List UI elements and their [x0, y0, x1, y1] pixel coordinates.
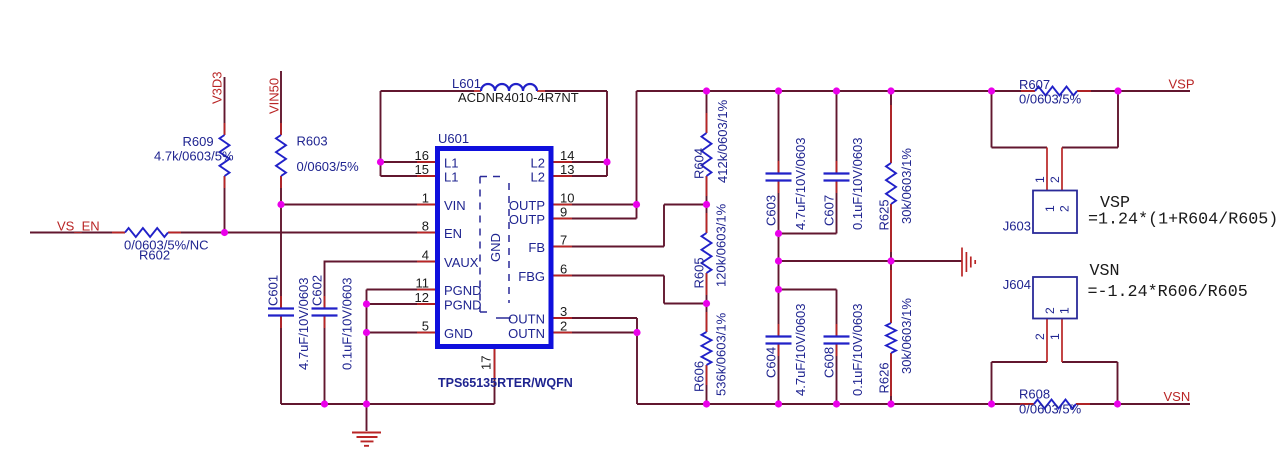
wire R604 R605 R606 column: [706, 91, 708, 404]
pin name VAUX left: [444, 255, 479, 270]
pin number 14: [560, 148, 574, 163]
J604 pin number 1 outside: [1048, 333, 1062, 340]
pin stubs J603: [1047, 148, 1062, 191]
svg-text:VIN: VIN: [444, 198, 466, 213]
junction VIN50 / VIN / C601: [277, 201, 284, 208]
value label R605: [714, 203, 729, 287]
resistor R608: [1034, 400, 1076, 409]
svg-text:R602: R602: [139, 248, 170, 263]
lead L601: [474, 90, 545, 92]
lead C604: [778, 324, 780, 356]
svg-text:VS_EN: VS_EN: [57, 219, 100, 234]
pin name OUTN right: [508, 326, 545, 341]
svg-text:4.7uF/10V/0603: 4.7uF/10V/0603: [793, 137, 808, 230]
resistor R625: [886, 163, 896, 204]
svg-text:L601: L601: [452, 76, 481, 91]
lead C602: [324, 296, 326, 328]
svg-text:R609: R609: [183, 134, 214, 149]
junction C607 top / VSP rail: [833, 87, 840, 94]
svg-text:1: 1: [422, 191, 429, 206]
op-amp U601 body (TPS65135): [438, 149, 552, 347]
capacitor C602: [312, 309, 338, 316]
svg-text:C608: C608: [822, 347, 837, 378]
formula VSN: [1088, 283, 1248, 302]
svg-text:120k/0603/1%: 120k/0603/1%: [714, 203, 729, 287]
value label L601: [458, 90, 579, 105]
power net V3D3: [210, 71, 225, 104]
svg-text:R605: R605: [692, 257, 707, 288]
lead R604: [706, 113, 708, 196]
svg-text:17: 17: [479, 356, 494, 370]
junction R606 / VSN rail: [703, 400, 710, 407]
junction R625 / R626 / GND: [887, 257, 894, 264]
svg-text:0/0603/5%: 0/0603/5%: [1019, 92, 1082, 107]
pin number 16: [415, 148, 429, 163]
svg-text:4.7k/0603/5%: 4.7k/0603/5%: [154, 149, 234, 164]
value label C607: [850, 137, 865, 230]
lead R626: [890, 270, 892, 396]
wire top rail left with L601: [381, 91, 608, 176]
capacitor C604: [766, 337, 792, 344]
pin number 12: [415, 290, 429, 305]
wire GND rail bottom-left: [281, 349, 495, 404]
net label VSN: [1164, 389, 1191, 404]
pin name L2 right: [531, 156, 545, 171]
value label R609: [154, 149, 234, 164]
lead C603: [778, 161, 780, 193]
lead R606: [706, 312, 708, 385]
svg-text:OUTN: OUTN: [508, 312, 545, 327]
pin 17 stub: [494, 349, 496, 378]
ref label C603: [764, 195, 779, 226]
value label R606: [714, 312, 729, 396]
pin number 6: [560, 262, 567, 277]
svg-text:FBG: FBG: [518, 269, 545, 284]
svg-text:L1: L1: [444, 170, 458, 185]
junction VS_EN / R609 / EN: [221, 229, 228, 236]
junction pin16 node: [377, 158, 384, 165]
svg-text:U601: U601: [438, 131, 469, 146]
resistor R604: [702, 133, 712, 176]
formula title VSP: [1100, 194, 1130, 213]
power net VIN50: [267, 78, 282, 114]
value label R626: [899, 298, 914, 374]
svg-text:9: 9: [560, 205, 567, 220]
wire pin16 pin15 to rail: [381, 162, 437, 176]
junction R626 / VSN rail: [887, 400, 894, 407]
lead R607: [1021, 90, 1091, 92]
junction C602 / GND rail: [321, 400, 328, 407]
pin number 7: [560, 233, 567, 248]
svg-text:2: 2: [1033, 333, 1047, 340]
wire VSN rail: [637, 403, 1190, 405]
svg-text:0.1uF/10V/0603: 0.1uF/10V/0603: [340, 277, 355, 370]
svg-text:536k/0603/1%: 536k/0603/1%: [714, 312, 729, 396]
resistor R602: [125, 228, 168, 237]
svg-text:2: 2: [1048, 176, 1062, 183]
resistor R603: [276, 135, 286, 176]
pin name VIN left: [444, 198, 466, 213]
ref label R603: [297, 134, 328, 149]
lead R605: [706, 213, 708, 295]
inductor L601: [481, 84, 537, 91]
pin name EN left: [444, 226, 462, 241]
svg-text:GND: GND: [488, 233, 503, 262]
formula title VSN: [1090, 262, 1120, 281]
wire R625 R626 column: [890, 91, 892, 404]
junction FBG / R605 / R606: [703, 300, 710, 307]
pin name OUTP right: [509, 198, 545, 213]
wire J604 risers: [992, 362, 1118, 404]
svg-text:L2: L2: [531, 170, 545, 185]
ref label R609: [183, 134, 214, 149]
pin number 3: [560, 304, 567, 319]
svg-text:L1: L1: [444, 156, 458, 171]
lead C607: [836, 161, 838, 193]
wire VS_EN net (EN input): [30, 232, 436, 234]
lead R603: [280, 123, 282, 188]
svg-text:PGND: PGND: [444, 298, 482, 313]
J604 pin 2 inside: [1043, 307, 1057, 314]
pin name OUTP right: [509, 212, 545, 227]
svg-text:4.7uF/10V/0603: 4.7uF/10V/0603: [793, 303, 808, 396]
ref label U601: [438, 131, 469, 146]
junction C603 top / VSP rail: [775, 87, 782, 94]
svg-text:1: 1: [1033, 176, 1047, 183]
svg-text:0.1uF/10V/0603: 0.1uF/10V/0603: [850, 137, 865, 230]
lead R602: [112, 232, 181, 234]
pin name L1 left: [444, 156, 458, 171]
svg-text:J604: J604: [1003, 277, 1031, 292]
pin name PGND left: [444, 298, 482, 313]
svg-text:GND: GND: [444, 326, 473, 341]
svg-text:30k/0603/1%: 30k/0603/1%: [899, 148, 914, 224]
svg-text:R607: R607: [1019, 77, 1050, 92]
wire VIN pin 1: [281, 204, 436, 206]
wire OUTN riser to VSN rail: [636, 333, 638, 405]
resistor R609: [220, 135, 230, 176]
junction J604 pin2 / VSN rail: [988, 400, 995, 407]
svg-text:0/0603/5%: 0/0603/5%: [297, 159, 360, 174]
lead R609: [224, 123, 226, 188]
resistor R605: [702, 233, 712, 273]
svg-text:2: 2: [560, 319, 567, 334]
connector J603: [1033, 191, 1077, 234]
pin name FBG right: [518, 269, 545, 284]
pin name FB right: [528, 240, 545, 255]
svg-text:4: 4: [422, 248, 429, 263]
junction J603 pin2 / VSP rail: [1114, 87, 1121, 94]
junction J604 pin1 / VSN rail: [1114, 400, 1121, 407]
junction J603 pin1 / VSP rail: [988, 87, 995, 94]
svg-text:3: 3: [560, 304, 567, 319]
value label R625: [899, 148, 914, 224]
resistor R607: [1035, 87, 1077, 96]
junction GND rail / ground: [363, 400, 370, 407]
svg-text:0.1uF/10V/0603: 0.1uF/10V/0603: [850, 303, 865, 396]
wire PGND pins to GND riser: [367, 290, 437, 405]
value label R603: [297, 159, 360, 174]
svg-text:412k/0603/1%: 412k/0603/1%: [715, 99, 730, 183]
J603 pin number 1 outside: [1033, 176, 1047, 183]
svg-text:30k/0603/1%: 30k/0603/1%: [899, 298, 914, 374]
pin name GND (center pad): [488, 233, 503, 262]
svg-text:FB: FB: [528, 240, 545, 255]
svg-text:14: 14: [560, 148, 574, 163]
svg-text:VAUX: VAUX: [444, 255, 479, 270]
svg-text:R608: R608: [1019, 387, 1050, 402]
svg-text:=-1.24*R606/R605: =-1.24*R606/R605: [1088, 283, 1248, 302]
value label R607: [1019, 92, 1082, 107]
junction OUTN node: [633, 329, 640, 336]
lead R608: [1020, 403, 1090, 405]
capacitor C603: [766, 174, 792, 181]
svg-text:R606: R606: [692, 361, 707, 392]
svg-text:ACDNR4010-4R7NT: ACDNR4010-4R7NT: [458, 90, 579, 105]
junction C603 col / GND rail: [775, 257, 782, 264]
pin number 13: [560, 162, 574, 177]
value label C608: [850, 303, 865, 396]
svg-text:R603: R603: [297, 134, 328, 149]
pin stubs U601 right side: [553, 162, 573, 333]
svg-text:V3D3: V3D3: [210, 71, 225, 104]
lead R625: [890, 105, 892, 252]
value label C601: [296, 277, 311, 370]
pin name L2 right: [531, 170, 545, 185]
J603 pin 1 inside: [1043, 205, 1057, 212]
svg-text:C601: C601: [266, 275, 281, 306]
pin name GND left: [444, 326, 473, 341]
svg-text:2: 2: [1058, 205, 1072, 212]
pin name L1 left: [444, 170, 458, 185]
junction OUTP node: [633, 201, 640, 208]
lead C601: [280, 296, 282, 328]
value label C602: [340, 277, 355, 370]
junction FB / R604 / R605: [703, 201, 710, 208]
svg-text:C607: C607: [822, 195, 837, 226]
value label R608: [1019, 402, 1082, 417]
ref label C604: [764, 347, 779, 378]
junction R604 top / VSP rail: [703, 87, 710, 94]
svg-text:OUTP: OUTP: [509, 198, 545, 213]
junction R625 top / VSP rail: [887, 87, 894, 94]
ref label R604: [692, 148, 707, 179]
svg-text:11: 11: [416, 276, 430, 291]
wire VAUX to C602: [325, 262, 437, 405]
svg-text:R604: R604: [692, 148, 707, 179]
svg-text:1: 1: [1058, 307, 1072, 314]
pin number 2: [560, 319, 567, 334]
pin number 15: [415, 162, 429, 177]
svg-text:0/0603/5%: 0/0603/5%: [1019, 402, 1082, 417]
svg-text:15: 15: [415, 162, 429, 177]
svg-text:=1.24*(1+R604/R605): =1.24*(1+R604/R605): [1088, 211, 1278, 230]
junction C603 / C607 bottom: [775, 230, 782, 237]
wire OUTP riser: [554, 91, 637, 219]
lead C608: [836, 324, 838, 356]
J604 pin number 2 outside: [1033, 333, 1047, 340]
pin name PGND left: [444, 283, 482, 298]
wire C607 column + tie: [779, 91, 837, 234]
pin number 11: [416, 276, 430, 291]
svg-text:5: 5: [422, 319, 429, 334]
net label VSP: [1169, 77, 1195, 92]
value label R602: [124, 238, 209, 253]
part number U601: [438, 376, 573, 390]
wire OUTN pins: [554, 318, 638, 333]
wire pin14 pin13 to rail: [554, 162, 608, 176]
junction PGND12 node: [363, 300, 370, 307]
svg-text:C602: C602: [310, 275, 325, 306]
ref label R626: [877, 362, 892, 393]
pin name OUTN right: [508, 312, 545, 327]
ground (bottom left): [352, 433, 381, 446]
ref label R602: [139, 248, 170, 263]
svg-text:VIN50: VIN50: [267, 78, 282, 114]
svg-text:OUTP: OUTP: [509, 212, 545, 227]
J604 pin 1 inside: [1058, 307, 1072, 314]
svg-text:PGND: PGND: [444, 283, 482, 298]
svg-text:6: 6: [560, 262, 567, 277]
pin number 8: [422, 219, 429, 234]
U601 internal GND dashed pad: [480, 177, 511, 319]
pin number 10: [560, 191, 574, 206]
svg-text:C604: C604: [764, 347, 779, 378]
svg-text:J603: J603: [1003, 219, 1031, 234]
capacitor C601: [268, 309, 294, 316]
svg-text:7: 7: [560, 233, 567, 248]
wire C603/C604 column: [778, 91, 780, 404]
svg-text:VSN: VSN: [1090, 262, 1120, 281]
junction GND pin5 node: [363, 329, 370, 336]
wire V3D3 to R609: [224, 77, 226, 233]
ref label J603: [1003, 219, 1031, 234]
pin number 9: [560, 205, 567, 220]
svg-text:10: 10: [560, 191, 574, 206]
ref label L601: [452, 76, 481, 91]
junction pin14 node: [603, 158, 610, 165]
wire top rail VSP segment: [637, 90, 1191, 92]
J603 pin 2 inside: [1058, 205, 1072, 212]
ref label R607: [1019, 77, 1050, 92]
svg-text:12: 12: [415, 290, 429, 305]
pin number 17: [479, 356, 494, 370]
ref label R605: [692, 257, 707, 288]
svg-text:2: 2: [1043, 307, 1057, 314]
J603 pin number 2 outside: [1048, 176, 1062, 183]
formula VSP: [1088, 211, 1278, 230]
svg-text:C603: C603: [764, 195, 779, 226]
svg-text:13: 13: [560, 162, 574, 177]
svg-text:VSP: VSP: [1169, 77, 1195, 92]
pin stubs J604: [1047, 319, 1062, 363]
wire C608 column + tie: [779, 290, 837, 405]
wire FBG to R605/R606 junction: [554, 276, 707, 304]
ground (mid right, rotated): [962, 248, 975, 277]
pin number 1: [422, 191, 429, 206]
value label R604: [715, 99, 730, 183]
wire mid GND rail: [779, 260, 963, 262]
svg-text:OUTN: OUTN: [508, 326, 545, 341]
wire VIN50 / R603 / C601 column: [280, 71, 282, 404]
pin number 4: [422, 248, 429, 263]
connector J604: [1033, 277, 1077, 319]
ref label C607: [822, 195, 837, 226]
junction C604 / C608 top: [775, 286, 782, 293]
junction C604 / VSN rail: [775, 400, 782, 407]
svg-text:EN: EN: [444, 226, 462, 241]
resistor R606: [702, 332, 712, 365]
svg-text:1: 1: [1048, 333, 1062, 340]
ref label C602: [310, 275, 325, 306]
capacitor C608: [824, 337, 850, 344]
svg-text:VSN: VSN: [1164, 389, 1191, 404]
net label VS_EN: [57, 219, 100, 234]
svg-text:8: 8: [422, 219, 429, 234]
wire FB to R604/R605 junction: [554, 205, 707, 247]
ref label C601: [266, 275, 281, 306]
pin number 5: [422, 319, 429, 334]
ref label R606: [692, 361, 707, 392]
svg-text:TPS65135RTER/WQFN: TPS65135RTER/WQFN: [438, 376, 573, 390]
pin stubs U601 left side: [417, 162, 437, 333]
svg-text:L2: L2: [531, 156, 545, 171]
resistor R626: [886, 323, 896, 353]
junction C608 / VSN rail: [833, 400, 840, 407]
svg-text:R626: R626: [877, 362, 892, 393]
value label C604: [793, 303, 808, 396]
wire J603 risers: [992, 91, 1119, 148]
ref label R625: [877, 199, 892, 230]
svg-text:1: 1: [1043, 205, 1057, 212]
ref label J604: [1003, 277, 1031, 292]
wire ground stub: [366, 404, 368, 431]
ref label C608: [822, 347, 837, 378]
ref label R608: [1019, 387, 1050, 402]
svg-text:16: 16: [415, 148, 429, 163]
capacitor C607: [824, 174, 850, 181]
svg-text:R625: R625: [877, 199, 892, 230]
value label C603: [793, 137, 808, 230]
